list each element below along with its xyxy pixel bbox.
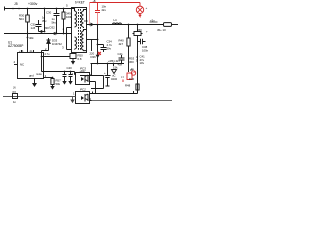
capacitor C34	[101, 48, 107, 50]
diode D35	[70, 54, 76, 59]
svg-text:+B: +B	[93, 0, 96, 3]
wire U1 pin feed	[27, 34, 29, 53]
wire C30 branch	[44, 9, 46, 32]
red probe circle	[139, 3, 141, 7]
pin 4 NC	[14, 64, 18, 66]
svg-text:R48: R48	[125, 84, 131, 88]
svg-text:4.7u: 4.7u	[45, 53, 50, 56]
svg-text:b=KET: b=KET	[75, 1, 85, 5]
wire C34 branch	[98, 45, 104, 53]
ground R57	[50, 86, 54, 90]
inductor L4	[113, 23, 122, 25]
transformer core	[78, 9, 80, 51]
wire R52 stub	[113, 64, 115, 67]
capacitor C39	[69, 72, 73, 82]
wire conn line2	[92, 100, 173, 102]
IC U1 box	[18, 53, 44, 79]
svg-text:330: 330	[44, 26, 49, 30]
node J5 pin dots	[12, 8, 64, 10]
pin stubs top	[22, 50, 34, 53]
wire lower rail	[91, 63, 125, 65]
transformer aux winding	[75, 37, 77, 50]
svg-text:50v: 50v	[107, 47, 112, 51]
svg-text:35v: 35v	[42, 19, 47, 23]
svg-text:50k: 50k	[56, 82, 61, 86]
svg-text:D36: D36	[91, 55, 97, 59]
capacitor C41b	[119, 55, 125, 64]
transformer secondary winding	[82, 10, 87, 51]
svg-text:C30: C30	[46, 11, 52, 15]
svg-text:1u5: 1u5	[31, 26, 36, 30]
svg-text:1N4742: 1N4742	[52, 42, 62, 46]
resistor R57	[52, 78, 54, 87]
diode D36	[96, 55, 100, 59]
red D40 marker	[127, 73, 132, 80]
svg-text:gnd: gnd	[29, 74, 34, 78]
wire mid rail	[4, 33, 72, 35]
transformer primary winding	[72, 9, 77, 28]
svg-text:+: +	[146, 6, 148, 10]
ground U1	[34, 79, 36, 84]
shunt reg tl432	[105, 64, 111, 87]
optocoupler PC3	[76, 73, 90, 85]
diode D33	[39, 31, 45, 33]
wire aux taps	[67, 28, 72, 50]
ground PC2	[72, 97, 74, 100]
wire conn line1	[93, 91, 138, 94]
svg-text:R58: R58	[137, 29, 142, 32]
svg-text:10v: 10v	[140, 61, 145, 65]
transformer T1 outline	[72, 8, 87, 53]
svg-text:45n: 45n	[118, 63, 123, 67]
wire PC2 anode	[3, 96, 76, 98]
svg-text:360: 360	[129, 60, 134, 64]
svg-text:t =: t =	[121, 75, 125, 79]
wire R38 branch	[91, 40, 93, 52]
wire PC2 pins right	[90, 94, 93, 101]
svg-text:D40: D40	[129, 77, 135, 81]
svg-text:L4: L4	[114, 18, 118, 22]
svg-text:PC2: PC2	[80, 88, 86, 92]
svg-text:2kv: 2kv	[102, 8, 107, 12]
resistor R34 snubber	[63, 9, 65, 34]
wire top +300v rail	[4, 8, 72, 10]
svg-text:NC: NC	[20, 63, 24, 67]
diode D32	[52, 32, 56, 35]
ground C39	[68, 81, 72, 85]
resistor R40 column	[128, 25, 130, 73]
svg-text:D8: D8	[84, 19, 88, 23]
svg-text:AZ7500BP: AZ7500BP	[8, 44, 23, 48]
wire zener to U1	[42, 51, 49, 57]
ferrite bead L5	[164, 23, 172, 27]
red X marker	[98, 52, 101, 55]
wire red hv rail	[90, 2, 141, 4]
svg-text:mute: mute	[36, 72, 42, 76]
svg-text:C41: C41	[118, 52, 124, 56]
fuse F2 column	[137, 25, 139, 94]
svg-text:+D07: +D07	[80, 70, 87, 73]
svg-text:40k: 40k	[29, 36, 34, 40]
wire feedback	[42, 57, 76, 75]
red overlay group	[75, 0, 148, 82]
svg-text:1n: 1n	[13, 100, 17, 104]
capacitor C31	[36, 20, 42, 32]
enclosure box	[80, 76, 104, 89]
wire secondary out	[87, 24, 164, 26]
ground D35	[72, 59, 74, 62]
svg-text:+7b: +7b	[19, 50, 24, 53]
svg-text:J5: J5	[14, 2, 18, 6]
zener D33	[47, 38, 51, 51]
svg-text:C40: C40	[67, 66, 73, 70]
capacitor C33 snubber	[54, 9, 60, 34]
capacitor C43 input	[13, 94, 18, 99]
wire sec filter	[97, 25, 99, 64]
resistor R48	[136, 84, 139, 90]
optocoupler PC2	[76, 92, 90, 104]
svg-text:5kv: 5kv	[52, 20, 57, 24]
wire R30 branch	[27, 9, 29, 34]
svg-text:4k7: 4k7	[119, 42, 124, 46]
svg-text:504: 504	[19, 17, 24, 21]
wire red highlight	[89, 3, 91, 25]
svg-text:XX: XX	[12, 90, 16, 94]
svg-text:6.8: 6.8	[78, 57, 82, 61]
capacitor C38	[138, 39, 146, 44]
svg-text:tl432: tl432	[111, 77, 118, 81]
diode D8	[91, 23, 95, 27]
capacitor red C10n	[95, 3, 100, 13]
wire PC3 out	[90, 64, 96, 94]
svg-text:100n: 100n	[142, 48, 149, 52]
node J5 connector tick	[4, 7, 6, 11]
resistor R30	[26, 15, 30, 22]
svg-text:D32: D32	[50, 26, 56, 30]
svg-text:+300v: +300v	[28, 2, 38, 6]
svg-text:45+ 10: 45+ 10	[157, 28, 166, 32]
ground C40	[62, 81, 66, 85]
